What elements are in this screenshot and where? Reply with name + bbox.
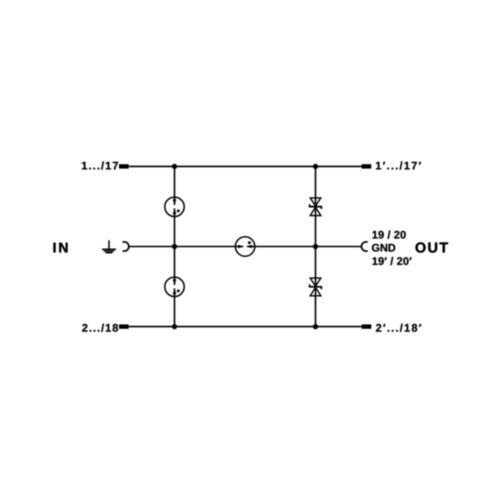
wire middle rail xyxy=(129,246,362,248)
junction top-right xyxy=(313,164,318,169)
junction middle-right xyxy=(313,244,318,249)
label terminal 1'.../17' xyxy=(376,161,421,169)
junction middle-left xyxy=(172,244,177,249)
wire bottom rail xyxy=(129,326,362,328)
wire left vertical xyxy=(174,166,176,326)
label GND xyxy=(372,244,395,252)
label terminal 2'.../18' xyxy=(376,324,421,332)
junction bottom-left xyxy=(172,324,177,329)
surge arrester F3 (middle gas discharge tube) xyxy=(235,237,254,256)
connector arc OUT (socket symbol, opens right) xyxy=(361,242,367,251)
connector arc IN (plug symbol, opens left) xyxy=(123,242,129,251)
TVS diode V1 (upper bidirectional suppressor) xyxy=(310,198,322,216)
label terminal 1.../17 xyxy=(82,161,118,169)
terminal bar top-right xyxy=(362,164,372,168)
terminal bar bottom-right xyxy=(362,324,372,328)
terminal bar bottom-left xyxy=(119,324,129,328)
ground xyxy=(102,240,116,253)
label 19' / 20' xyxy=(373,257,412,265)
label terminal 2.../18 xyxy=(82,324,118,332)
surge arrester F1 (upper gas discharge tube) xyxy=(165,197,184,216)
terminal bar top-left xyxy=(119,164,129,168)
label IN xyxy=(54,243,68,253)
TVS diode V2 (lower bidirectional suppressor) xyxy=(310,278,322,296)
junction bottom-right xyxy=(313,324,318,329)
surge arrester F2 (lower gas discharge tube) xyxy=(165,277,184,296)
junction top-left xyxy=(172,164,177,169)
label 19 / 20 xyxy=(373,231,406,239)
wire top rail xyxy=(129,165,362,167)
wire right vertical xyxy=(315,166,317,326)
label OUT xyxy=(416,242,449,252)
